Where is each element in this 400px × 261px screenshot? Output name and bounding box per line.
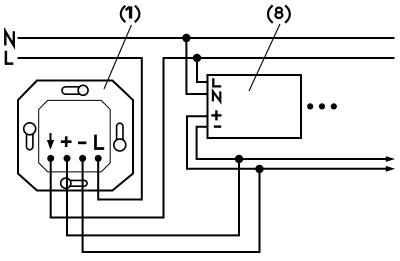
terminal label +: [61, 136, 72, 147]
label (1): [121, 6, 140, 22]
terminal dot -: [79, 155, 86, 162]
wire L bus left segment feeding switch terminal L: [18, 58, 142, 200]
junction dot arrow bus 2: [255, 165, 263, 173]
terminal dot arrow: [47, 155, 54, 162]
junction dot on N bus: [182, 34, 190, 42]
terminal dot L: [95, 155, 102, 162]
arrowhead bus 1: [386, 156, 395, 162]
left mounting slot: [24, 123, 36, 150]
driver terminal label L: [213, 78, 221, 86]
driver terminal label +: [211, 110, 221, 120]
top mounting slot: [62, 85, 88, 95]
wire switch + terminal to arrow bus 1: [67, 158, 239, 235]
node N label: [5, 31, 14, 45]
driver terminal label -: [214, 125, 221, 127]
arrowhead bus 2: [386, 166, 395, 172]
junction dot on L bus right segment: [193, 54, 201, 62]
junction dot arrow bus 1: [235, 155, 243, 163]
LED driver box (8): [208, 75, 302, 138]
terminal label -: [78, 142, 86, 145]
callout line (8): [249, 24, 280, 91]
wire switched-live: switch terminal arrow up to L bus right segment: [51, 58, 395, 218]
switch plate outer octagon (1): [18, 81, 133, 191]
right mounting slot: [114, 123, 126, 151]
label (8): [268, 5, 290, 22]
ellipsis more drivers: [307, 103, 337, 109]
wire L bus to driver L terminal: [197, 58, 208, 82]
switch inner frame: [39, 100, 111, 171]
wire N bus line: [18, 37, 395, 39]
terminal label arrow (output): [47, 133, 54, 150]
wire driver - to arrow bus 1: [197, 127, 389, 159]
wire driver + to arrow bus 2: [187, 116, 389, 169]
node L label: [6, 51, 13, 64]
bottom mounting slot: [61, 178, 87, 188]
callout line (1): [104, 25, 131, 89]
wire N bus to driver N terminal: [186, 38, 207, 94]
driver terminal label N: [213, 91, 220, 101]
terminal dot +: [64, 155, 71, 162]
terminal label L: [96, 135, 105, 149]
wire switch - terminal to arrow bus 2: [83, 158, 260, 252]
